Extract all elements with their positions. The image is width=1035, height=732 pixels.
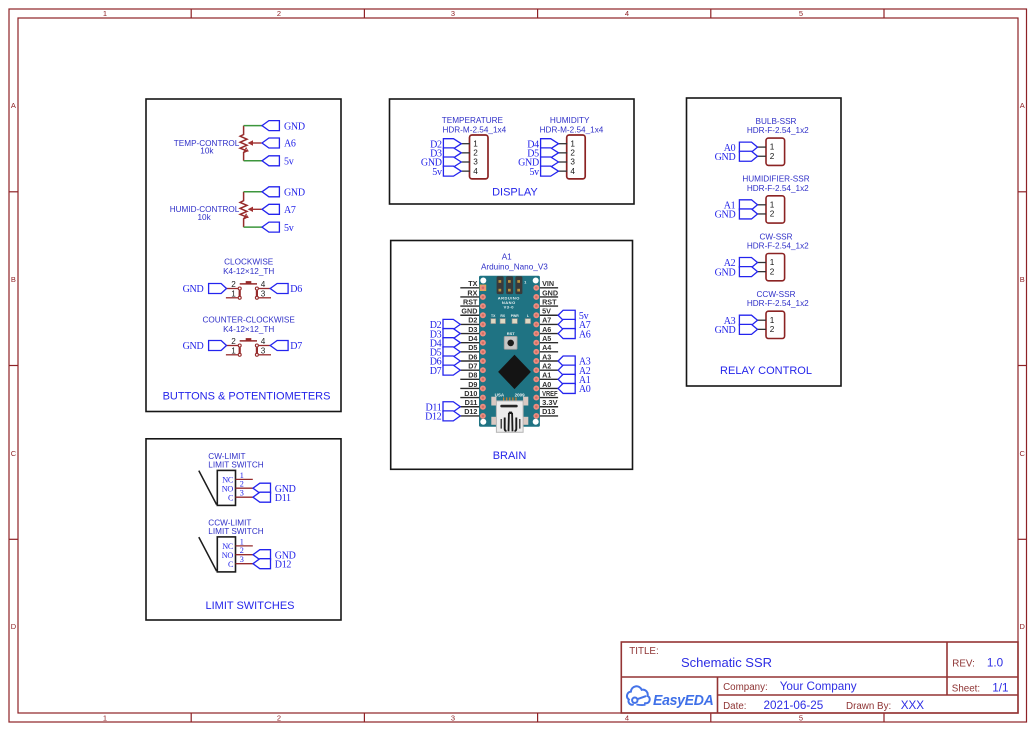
- net flag D3: [430, 148, 461, 160]
- svg-text:GND: GND: [183, 341, 204, 352]
- svg-text:RX: RX: [467, 288, 477, 297]
- net flag A0: [724, 142, 758, 154]
- svg-text:5v: 5v: [529, 167, 539, 178]
- net flag D2: [430, 139, 461, 151]
- net flag D6: [270, 284, 302, 296]
- pin A4: [540, 343, 558, 352]
- pin 5V: [540, 307, 558, 316]
- net flag A6: [558, 329, 591, 341]
- svg-text:5v: 5v: [284, 223, 294, 234]
- svg-text:D11: D11: [465, 398, 478, 407]
- svg-text:BULB-SSR: BULB-SSR: [756, 117, 797, 126]
- pin A5: [540, 334, 558, 343]
- pin 3.3V: [540, 398, 558, 407]
- svg-text:2: 2: [231, 337, 236, 346]
- svg-text:B: B: [11, 275, 16, 284]
- svg-text:L: L: [527, 314, 529, 318]
- svg-text:VIN: VIN: [542, 279, 554, 288]
- svg-text:RST: RST: [507, 331, 516, 336]
- pin A6: [540, 325, 558, 334]
- svg-text:NO: NO: [222, 551, 234, 560]
- net flag D5: [430, 347, 461, 359]
- svg-text:3: 3: [451, 9, 455, 18]
- svg-text:1: 1: [770, 258, 775, 267]
- net flag GND: [715, 151, 758, 163]
- svg-text:5: 5: [799, 713, 803, 722]
- svg-text:CW-SSR: CW-SSR: [759, 232, 792, 241]
- svg-text:A: A: [1020, 101, 1025, 110]
- net flag GND: [183, 284, 227, 296]
- wire: [244, 226, 262, 228]
- svg-text:Date:: Date:: [723, 701, 746, 712]
- svg-text:1: 1: [770, 200, 775, 209]
- group box LIMIT SWITCHES: [146, 439, 341, 620]
- svg-text:HDR-F-2.54_1x2: HDR-F-2.54_1x2: [747, 242, 809, 251]
- svg-text:HDR-M-2.54_1x4: HDR-M-2.54_1x4: [442, 126, 506, 135]
- EasyEDA logo: [627, 686, 714, 709]
- pin GND: [460, 307, 479, 316]
- svg-text:A4: A4: [542, 343, 551, 352]
- svg-text:TITLE:: TITLE:: [629, 646, 658, 657]
- pin D13: [540, 407, 558, 416]
- net flag GND: [518, 157, 558, 169]
- pin D6: [460, 352, 479, 361]
- svg-text:D11: D11: [275, 493, 291, 504]
- svg-text:NC: NC: [222, 542, 234, 551]
- svg-text:D8: D8: [468, 371, 477, 380]
- svg-text:DISPLAY: DISPLAY: [492, 187, 538, 199]
- svg-text:GND: GND: [284, 121, 305, 132]
- pin D7: [460, 361, 479, 370]
- svg-text:GND: GND: [461, 307, 477, 316]
- svg-text:HDR-F-2.54_1x2: HDR-F-2.54_1x2: [747, 126, 809, 135]
- svg-text:LIMIT SWITCHES: LIMIT SWITCHES: [205, 600, 294, 612]
- svg-text:C: C: [1019, 449, 1025, 458]
- svg-text:D6: D6: [468, 352, 477, 361]
- group box DISPLAY: [390, 99, 635, 204]
- svg-text:3: 3: [451, 713, 455, 722]
- net flag D12: [425, 411, 460, 423]
- pin RST: [540, 297, 558, 306]
- svg-text:TX: TX: [468, 279, 477, 288]
- svg-text:HDR-M-2.54_1x4: HDR-M-2.54_1x4: [540, 126, 604, 135]
- group box BRAIN: [391, 241, 633, 470]
- svg-text:K4-12×12_TH: K4-12×12_TH: [223, 325, 274, 334]
- pin A1: [540, 371, 558, 380]
- net flag A1: [558, 374, 591, 386]
- pin D12: [460, 407, 479, 416]
- net flag GND: [262, 121, 305, 133]
- svg-text:D6: D6: [290, 284, 302, 295]
- wire: [244, 191, 262, 193]
- svg-text:A: A: [11, 101, 16, 110]
- svg-text:2: 2: [240, 546, 244, 555]
- svg-text:2021-06-25: 2021-06-25: [764, 699, 824, 712]
- net flag A6: [262, 138, 296, 150]
- pin D10: [460, 389, 479, 398]
- net flag A1: [724, 200, 758, 212]
- svg-text:TEMPERATURE: TEMPERATURE: [442, 116, 504, 125]
- pushbutton COUNTER-CLOCKWISE K4-12x12_TH: [203, 315, 296, 356]
- svg-text:2: 2: [770, 152, 775, 161]
- pin A2: [540, 361, 558, 370]
- pin D8: [460, 371, 479, 380]
- svg-text:V3-0: V3-0: [504, 305, 515, 310]
- svg-text:Your Company: Your Company: [780, 680, 857, 693]
- svg-text:D7: D7: [430, 366, 442, 377]
- net flag A0: [558, 383, 591, 395]
- pin D2: [460, 316, 479, 325]
- svg-text:3: 3: [570, 158, 575, 167]
- group box RELAY CONTROL: [687, 98, 842, 386]
- svg-text:A0: A0: [579, 384, 591, 395]
- svg-text:A1: A1: [502, 253, 512, 262]
- net flag 5v: [262, 156, 294, 168]
- pin TX: [460, 279, 479, 288]
- svg-text:2: 2: [473, 148, 478, 157]
- potentiometer HUMID-CONTROL 10k: [170, 192, 262, 227]
- svg-text:3: 3: [261, 347, 266, 356]
- svg-text:D3: D3: [468, 325, 477, 334]
- svg-text:10k: 10k: [197, 213, 211, 222]
- net flag 5v: [529, 166, 558, 178]
- svg-text:2: 2: [770, 210, 775, 219]
- svg-text:3: 3: [240, 555, 244, 564]
- svg-text:A0: A0: [542, 380, 551, 389]
- svg-text:4: 4: [625, 9, 629, 18]
- sheet field: [952, 682, 1009, 695]
- svg-text:TX: TX: [491, 314, 496, 318]
- svg-text:D9: D9: [468, 380, 477, 389]
- svg-text:1: 1: [103, 9, 107, 18]
- svg-text:Arduino_Nano_V3: Arduino_Nano_V3: [481, 262, 548, 271]
- svg-text:RX: RX: [500, 314, 505, 318]
- svg-text:C: C: [228, 494, 234, 503]
- svg-text:2: 2: [770, 325, 775, 334]
- rev field: [952, 657, 1003, 670]
- net flag A7: [558, 319, 591, 331]
- svg-text:REV:: REV:: [952, 659, 975, 670]
- mcu A1 Arduino_Nano_V3: [479, 253, 548, 433]
- svg-text:4: 4: [473, 167, 478, 176]
- svg-text:B: B: [1020, 275, 1025, 284]
- svg-text:5v: 5v: [432, 167, 442, 178]
- net flag GND: [183, 341, 227, 353]
- svg-text:NO: NO: [222, 485, 234, 494]
- connector HUMIDITY HDR-M-2.54_1x4: [540, 116, 604, 179]
- switch CW-LIMIT LIMIT SWITCH: [199, 452, 264, 505]
- svg-text:BUTTONS & POTENTIOMETERS: BUTTONS & POTENTIOMETERS: [163, 391, 331, 403]
- title block: [621, 642, 1018, 713]
- svg-text:4: 4: [625, 713, 629, 722]
- net flag GND: [715, 209, 758, 221]
- svg-text:1: 1: [770, 316, 775, 325]
- svg-text:D2: D2: [468, 316, 477, 325]
- svg-text:D: D: [11, 622, 17, 631]
- svg-text:D12: D12: [425, 412, 442, 423]
- svg-text:1.0: 1.0: [987, 657, 1004, 670]
- svg-text:D5: D5: [468, 343, 477, 352]
- connector BULB-SSR HDR-F-2.54_1x2: [747, 117, 809, 166]
- svg-text:EasyEDA: EasyEDA: [653, 693, 714, 709]
- svg-text:A6: A6: [579, 329, 591, 340]
- svg-text:LIMIT SWITCH: LIMIT SWITCH: [208, 460, 263, 469]
- svg-text:D12: D12: [464, 407, 477, 416]
- connector CCW-SSR HDR-F-2.54_1x2: [747, 290, 809, 339]
- pin D4: [460, 334, 479, 343]
- potentiometer TEMP-CONTROL 10k: [174, 126, 262, 161]
- svg-text:GND: GND: [542, 288, 558, 297]
- svg-text:D7: D7: [468, 361, 477, 370]
- net flag A2: [558, 365, 591, 377]
- svg-text:PWR: PWR: [511, 314, 519, 318]
- svg-text:3.3V: 3.3V: [542, 398, 558, 407]
- net flag D6: [430, 356, 461, 368]
- pin VREF: [540, 389, 558, 398]
- svg-text:A1: A1: [542, 371, 551, 380]
- svg-text:1: 1: [473, 139, 478, 148]
- net flag A7: [262, 204, 296, 216]
- svg-text:GND: GND: [284, 188, 305, 199]
- svg-text:HDR-F-2.54_1x2: HDR-F-2.54_1x2: [747, 184, 809, 193]
- pin D3: [460, 325, 479, 334]
- pin RST: [460, 297, 479, 306]
- svg-text:5V: 5V: [542, 307, 551, 316]
- svg-text:K4-12×12_TH: K4-12×12_TH: [223, 267, 274, 276]
- svg-text:Company:: Company:: [723, 682, 768, 693]
- pin A0: [540, 380, 558, 389]
- net flag 5v: [262, 222, 294, 234]
- svg-text:1: 1: [240, 537, 244, 546]
- svg-text:D13: D13: [542, 407, 555, 416]
- net flag D4: [430, 338, 461, 350]
- svg-text:RST: RST: [542, 297, 557, 306]
- svg-text:3: 3: [473, 158, 478, 167]
- svg-text:HUMIDIFIER-SSR: HUMIDIFIER-SSR: [742, 175, 809, 184]
- pin A3: [540, 352, 558, 361]
- svg-text:D10: D10: [464, 389, 477, 398]
- svg-text:A7: A7: [284, 205, 296, 216]
- svg-text:1: 1: [103, 713, 107, 722]
- svg-text:2: 2: [770, 267, 775, 276]
- svg-text:A6: A6: [284, 139, 296, 150]
- svg-text:4: 4: [261, 337, 266, 346]
- connector CW-SSR HDR-F-2.54_1x2: [747, 232, 809, 280]
- pin RX: [460, 288, 479, 297]
- svg-text:4: 4: [261, 280, 266, 289]
- svg-text:XXX: XXX: [901, 699, 925, 712]
- wire: [244, 160, 262, 162]
- svg-text:A3: A3: [542, 352, 551, 361]
- net flag GND: [253, 550, 296, 562]
- pin A7: [540, 316, 558, 325]
- net flag GND: [253, 483, 296, 495]
- svg-text:10k: 10k: [200, 147, 214, 156]
- title text: [629, 646, 772, 670]
- svg-text:A2: A2: [542, 361, 551, 370]
- drawn-by field: [846, 699, 924, 712]
- net flag D7: [270, 341, 302, 353]
- pin D5: [460, 343, 479, 352]
- net flag D11: [425, 402, 460, 414]
- net flag 5v: [432, 166, 461, 178]
- svg-text:A7: A7: [542, 316, 551, 325]
- svg-text:A5: A5: [542, 334, 551, 343]
- svg-text:VREF: VREF: [542, 389, 558, 398]
- svg-text:GND: GND: [715, 152, 736, 163]
- net flag GND: [715, 324, 758, 336]
- svg-text:3: 3: [261, 290, 266, 299]
- svg-text:D7: D7: [290, 341, 302, 352]
- svg-text:RELAY CONTROL: RELAY CONTROL: [720, 365, 812, 377]
- svg-text:2: 2: [277, 9, 281, 18]
- net flag D11: [253, 492, 291, 504]
- net flag A3: [558, 356, 591, 368]
- switch CCW-LIMIT LIMIT SWITCH: [199, 519, 264, 572]
- connector TEMPERATURE HDR-M-2.54_1x4: [442, 116, 507, 179]
- svg-text:1: 1: [231, 290, 236, 299]
- svg-text:1: 1: [570, 139, 575, 148]
- svg-text:D4: D4: [468, 334, 477, 343]
- svg-text:5v: 5v: [284, 157, 294, 168]
- net flag D7: [430, 365, 461, 377]
- date field: [723, 699, 824, 712]
- svg-text:C: C: [228, 560, 234, 569]
- svg-text:NC: NC: [222, 476, 234, 485]
- svg-text:RST: RST: [463, 297, 478, 306]
- svg-text:1/1: 1/1: [992, 682, 1008, 695]
- svg-text:Drawn By:: Drawn By:: [846, 701, 891, 712]
- svg-text:2: 2: [240, 480, 244, 489]
- net flag GND: [715, 267, 758, 279]
- svg-text:COUNTER-CLOCKWISE: COUNTER-CLOCKWISE: [203, 315, 296, 324]
- group box BUTTONS &amp; POTENTIOMETERS: [146, 99, 341, 412]
- svg-text:1: 1: [770, 143, 775, 152]
- wire: [244, 125, 262, 127]
- net flag 5v: [558, 310, 589, 322]
- pin D9: [460, 380, 479, 389]
- svg-text:GND: GND: [715, 325, 736, 336]
- net flag A2: [724, 258, 758, 270]
- svg-text:1: 1: [240, 471, 244, 480]
- svg-text:2: 2: [570, 148, 575, 157]
- svg-text:CLOCKWISE: CLOCKWISE: [224, 258, 274, 267]
- svg-text:2: 2: [277, 713, 281, 722]
- net flag D4: [527, 139, 558, 151]
- svg-text:CCW-SSR: CCW-SSR: [757, 290, 796, 299]
- connector HUMIDIFIER-SSR HDR-F-2.54_1x2: [742, 175, 809, 224]
- svg-text:Sheet:: Sheet:: [952, 684, 980, 695]
- svg-text:Schematic SSR: Schematic SSR: [681, 655, 772, 670]
- svg-text:2: 2: [231, 280, 236, 289]
- net flag D5: [527, 148, 558, 160]
- net flag D3: [430, 329, 461, 341]
- svg-text:5: 5: [799, 9, 803, 18]
- svg-text:4: 4: [570, 167, 575, 176]
- pin D11: [460, 398, 479, 407]
- net flag D12: [253, 559, 291, 571]
- net flag D2: [430, 319, 461, 331]
- svg-text:A6: A6: [542, 325, 551, 334]
- svg-text:GND: GND: [715, 267, 736, 278]
- svg-text:GND: GND: [715, 210, 736, 221]
- svg-text:D: D: [1019, 622, 1025, 631]
- pushbutton CLOCKWISE K4-12x12_TH: [223, 258, 274, 300]
- net flag GND: [421, 157, 461, 169]
- svg-text:D12: D12: [275, 559, 292, 570]
- svg-text:GND: GND: [183, 284, 204, 295]
- svg-text:HUMIDITY: HUMIDITY: [550, 116, 590, 125]
- svg-text:C: C: [11, 449, 17, 458]
- svg-text:HDR-F-2.54_1x2: HDR-F-2.54_1x2: [747, 299, 809, 308]
- svg-text:LIMIT SWITCH: LIMIT SWITCH: [208, 527, 263, 536]
- pin VIN: [540, 279, 558, 288]
- svg-text:3: 3: [240, 489, 244, 498]
- svg-text:BRAIN: BRAIN: [493, 450, 527, 462]
- net flag A3: [724, 315, 758, 327]
- company field: [723, 680, 857, 693]
- svg-text:1: 1: [231, 347, 236, 356]
- pin GND: [540, 288, 558, 297]
- net flag GND: [262, 187, 305, 199]
